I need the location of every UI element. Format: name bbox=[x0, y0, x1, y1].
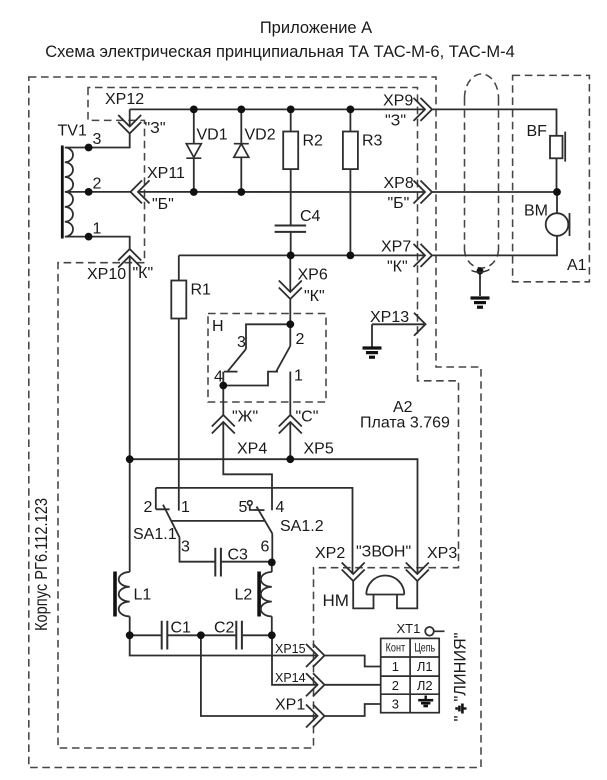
wire R2 C4 branch bbox=[290, 109, 292, 255]
connector XP15 bbox=[306, 644, 325, 667]
svg-text:3: 3 bbox=[237, 334, 246, 351]
svg-text:"Б": "Б" bbox=[388, 195, 410, 212]
svg-text:Плата 3.769: Плата 3.769 bbox=[360, 415, 450, 432]
connector XP2 bbox=[342, 563, 365, 582]
wire XP15 to XT1 row1 bbox=[325, 656, 381, 667]
wire SA1.1 pin2 stub bbox=[156, 488, 170, 509]
wire SA1 middle link rail bbox=[172, 520, 264, 522]
transformer TV1 winding bbox=[65, 148, 89, 237]
earphone BF bbox=[550, 132, 565, 162]
wire net Б rail bbox=[89, 191, 557, 193]
inductor L1 core bbox=[113, 572, 117, 617]
svg-text:BF: BF bbox=[527, 123, 548, 140]
svg-text:2: 2 bbox=[296, 331, 305, 348]
diode VD2 bbox=[234, 144, 249, 158]
svg-text:XP13: XP13 bbox=[370, 309, 409, 326]
inductor L2 winding bbox=[261, 572, 272, 616]
svg-text:XP7: XP7 bbox=[381, 239, 411, 256]
connector XP4 bbox=[212, 415, 235, 434]
svg-text:5: 5 bbox=[239, 499, 248, 516]
resistor R1 bbox=[171, 281, 186, 319]
node R3 bottom bbox=[347, 252, 355, 260]
svg-text:2: 2 bbox=[93, 176, 102, 193]
connector XP9 bbox=[414, 98, 433, 121]
hookswitch unit H dashed box bbox=[208, 314, 326, 403]
wire SA1 top rail to XP2 bbox=[156, 488, 353, 574]
node C4 bottom bbox=[287, 252, 295, 260]
svg-text:L1: L1 bbox=[134, 587, 152, 604]
svg-text:ХТ1: ХТ1 bbox=[397, 621, 421, 636]
wire XP5 to mid rail bbox=[289, 422, 291, 459]
wire XP12 to З rail bbox=[129, 109, 131, 126]
handset cable dashed sheath bbox=[465, 74, 499, 268]
enclosure Корпус РГ6.112.123 dashed outline bbox=[29, 77, 481, 768]
node TV1 pin3 bbox=[85, 144, 93, 152]
svg-text:Цепь: Цепь bbox=[414, 643, 435, 655]
svg-text:SA1.1: SA1.1 bbox=[133, 526, 177, 543]
node H pin4 bbox=[219, 382, 227, 390]
wire H blade 2 bbox=[276, 346, 290, 371]
microphone BM bbox=[546, 213, 570, 236]
resistor R3 bbox=[343, 132, 358, 170]
inductor L1 winding bbox=[119, 572, 130, 616]
svg-text:3: 3 bbox=[93, 131, 102, 148]
node VD1 top bbox=[190, 106, 198, 114]
wire C1 C2 row bbox=[130, 634, 272, 636]
ground XP13 bbox=[363, 348, 382, 357]
node C1 C2 mid bbox=[197, 631, 205, 639]
inductor L2 core bbox=[257, 572, 261, 617]
switch SA1.2 pin5 circle bbox=[248, 501, 253, 506]
diode VD1 bbox=[186, 144, 201, 159]
node C1 left bbox=[126, 631, 134, 639]
wire SA1.2 pin6 drop bbox=[271, 534, 273, 563]
connector XP13 bbox=[414, 313, 426, 336]
wire XP15 feed bbox=[130, 635, 318, 655]
node TV1 pin2 bbox=[85, 188, 93, 196]
wire XP2 bell lead bbox=[353, 581, 373, 608]
terminal block XT1 table bbox=[381, 638, 440, 712]
wire shield drop bbox=[479, 271, 481, 296]
wire XP14 feed bbox=[272, 635, 318, 685]
wire XP3 bell lead bbox=[397, 581, 417, 608]
svg-text:BM: BM bbox=[524, 203, 548, 220]
svg-text:R3: R3 bbox=[362, 133, 383, 150]
node H top bbox=[286, 320, 294, 328]
svg-text:XP14: XP14 bbox=[275, 671, 306, 685]
node C2 right bbox=[268, 631, 276, 639]
wire XP1 to XT1 row3 bbox=[325, 704, 381, 716]
wire R1 top bbox=[178, 255, 180, 280]
wire H pin2 bbox=[289, 324, 291, 346]
svg-text:XP10: XP10 bbox=[87, 266, 126, 283]
svg-text:"ЗВОН": "ЗВОН" bbox=[356, 544, 411, 561]
resistor R2 bbox=[283, 132, 298, 170]
connector XP7 bbox=[414, 244, 433, 267]
svg-text:"К": "К" bbox=[304, 288, 325, 305]
node VD2 top bbox=[237, 106, 245, 114]
svg-text:": " bbox=[451, 715, 470, 721]
svg-text:XP4: XP4 bbox=[237, 441, 267, 458]
wire VD2 branch bbox=[240, 109, 242, 192]
svg-text:"З": "З" bbox=[145, 120, 166, 137]
connector XP1 bbox=[306, 705, 325, 728]
wire XP1 feed bbox=[201, 635, 318, 716]
wire XP10 down left riser bbox=[129, 256, 131, 459]
wire L1 top lead bbox=[129, 459, 131, 572]
wire C3 right bbox=[221, 561, 272, 563]
wire mid rail y459 bbox=[130, 459, 418, 574]
svg-text:XP9: XP9 bbox=[383, 93, 413, 110]
wire TV1 pin1 to XP10 bbox=[89, 237, 130, 249]
wire XP6 upper bbox=[289, 255, 291, 292]
svg-text:1: 1 bbox=[392, 659, 399, 674]
XT1 screw circle bbox=[425, 627, 434, 636]
svg-text:L2: L2 bbox=[235, 587, 253, 604]
svg-text:2: 2 bbox=[392, 678, 399, 693]
capacitor C4 bbox=[275, 226, 307, 232]
wire SA1.2 pin5 stub bbox=[250, 505, 265, 510]
svg-text:А2: А2 bbox=[393, 399, 413, 416]
wire H tick4 bbox=[224, 371, 238, 373]
wire H pin4 to XP4 bbox=[222, 386, 224, 416]
svg-text:3: 3 bbox=[181, 539, 190, 556]
wire net З handset side bbox=[432, 109, 557, 135]
svg-text:Конт: Конт bbox=[386, 643, 406, 655]
svg-text:XP15: XP15 bbox=[275, 642, 306, 656]
wire H pin3 arm bbox=[246, 324, 290, 349]
wire XP14 to XT1 row2 bbox=[325, 684, 381, 686]
svg-text:4: 4 bbox=[276, 499, 285, 516]
wire H pin4 to riser bbox=[223, 372, 278, 386]
connector XP10 bbox=[118, 249, 141, 268]
node left rail bbox=[126, 455, 134, 463]
svg-text:XP2: XP2 bbox=[315, 545, 345, 562]
wire XP4 to SA1.2 pin4 bbox=[223, 422, 272, 510]
wire net К rail bbox=[179, 236, 557, 256]
svg-text:TV1: TV1 bbox=[58, 123, 87, 140]
svg-text:SA1.2: SA1.2 bbox=[280, 518, 324, 535]
svg-text:Корпус РГ6.112.123: Корпус РГ6.112.123 bbox=[31, 498, 51, 631]
cable shield arc bbox=[472, 270, 490, 273]
svg-text:XP1: XP1 bbox=[275, 697, 305, 714]
svg-text:НМ: НМ bbox=[323, 591, 349, 610]
node TV1 pin1 bbox=[85, 233, 93, 241]
svg-text:"К": "К" bbox=[387, 259, 408, 276]
wire R3 branch bbox=[349, 109, 351, 255]
svg-text:XP6: XP6 bbox=[298, 267, 328, 284]
svg-text:"ЛИНИЯ": "ЛИНИЯ" bbox=[451, 633, 470, 702]
svg-text:6: 6 bbox=[261, 539, 270, 556]
capacitor C1 bbox=[162, 621, 168, 650]
wire H pin4 stub bbox=[222, 372, 224, 386]
node XP5 rail bbox=[286, 455, 294, 463]
svg-text:"К": "К" bbox=[133, 265, 154, 282]
svg-text:Приложение А: Приложение А bbox=[260, 19, 372, 37]
wire XP13 to ground bbox=[372, 324, 424, 346]
svg-text:Н: Н bbox=[212, 318, 224, 335]
handset unit A1 dashed box bbox=[513, 75, 590, 281]
svg-text:1: 1 bbox=[181, 499, 190, 516]
svg-text:"Б": "Б" bbox=[152, 196, 174, 213]
svg-text:VD2: VD2 bbox=[245, 127, 276, 144]
svg-text:XP12: XP12 bbox=[105, 91, 144, 108]
table cell ground glyph bbox=[418, 696, 433, 707]
svg-text:3: 3 bbox=[392, 697, 399, 712]
svg-text:R2: R2 bbox=[303, 133, 324, 150]
svg-text:Л1: Л1 bbox=[417, 659, 433, 674]
svg-text:XP8: XP8 bbox=[384, 175, 414, 192]
bell HM dome bbox=[366, 576, 404, 595]
connector XP11 bbox=[131, 180, 150, 203]
wire H pin1 to XP5 bbox=[289, 372, 291, 415]
svg-text:Схема электрическая принципиал: Схема электрическая принципиальная ТА ТА… bbox=[45, 43, 515, 61]
svg-text:Л2: Л2 bbox=[417, 678, 433, 693]
svg-text:"З": "З" bbox=[385, 113, 406, 130]
node cable shield bbox=[477, 268, 484, 275]
node A1 mid bbox=[553, 188, 561, 196]
svg-text:C3: C3 bbox=[228, 547, 249, 564]
svg-text:XP3: XP3 bbox=[427, 545, 457, 562]
svg-text:1: 1 bbox=[294, 368, 303, 385]
connector XP6 bbox=[279, 281, 302, 300]
connector XP12 bbox=[118, 115, 141, 134]
svg-text:C2: C2 bbox=[214, 620, 235, 637]
node C3 L2 pin6 bbox=[268, 559, 276, 567]
XT1 screw line bbox=[434, 630, 445, 632]
wire L2 top lead bbox=[271, 562, 273, 572]
svg-text:"Ж": "Ж" bbox=[232, 409, 258, 426]
node R3 top bbox=[347, 106, 355, 114]
wire L1 bottom lead bbox=[129, 616, 131, 635]
svg-text:VD1: VD1 bbox=[197, 127, 228, 144]
svg-text:XP5: XP5 bbox=[304, 441, 334, 458]
wire TV1 pin3 to XP12 bbox=[89, 134, 130, 148]
svg-text:1: 1 bbox=[93, 221, 102, 238]
svg-text:"С": "С" bbox=[296, 409, 319, 426]
transformer TV1 core bbox=[61, 146, 64, 239]
svg-text:C4: C4 bbox=[300, 208, 321, 225]
board A2 dashed outline bbox=[58, 88, 459, 749]
wire XP6 lower to H bbox=[289, 299, 291, 324]
connector XP8 bbox=[414, 181, 433, 204]
capacitor C3 bbox=[215, 548, 221, 577]
wire BM top lead bbox=[556, 192, 558, 213]
wire SA1.1 blade bbox=[163, 505, 180, 538]
wire net З top rail bbox=[130, 108, 424, 110]
wire R1 bottom to SA1.1 pin1 bbox=[178, 319, 180, 511]
capacitor C2 bbox=[236, 621, 242, 650]
ground under cable bbox=[471, 298, 490, 307]
wire BF top lead bbox=[556, 158, 558, 192]
connector XP14 bbox=[306, 673, 325, 696]
wire SA1.1 pin3 drop bbox=[180, 537, 216, 561]
label ЛИНИЯ ground glyph rotated bbox=[457, 704, 467, 714]
wire SA1.2 blade bbox=[257, 507, 273, 534]
svg-text:C1: C1 bbox=[171, 620, 192, 637]
connector XP3 bbox=[406, 563, 429, 582]
svg-text:XP11: XP11 bbox=[147, 165, 185, 182]
wire VD1 branch bbox=[193, 109, 195, 192]
svg-text:R1: R1 bbox=[191, 282, 212, 299]
node R2 top bbox=[287, 106, 295, 114]
svg-text:2: 2 bbox=[144, 499, 153, 516]
svg-text:А1: А1 bbox=[567, 257, 587, 274]
node VD1 bottom bbox=[190, 188, 198, 196]
wire L2 bottom lead bbox=[271, 616, 273, 635]
connector XP5 bbox=[279, 415, 302, 434]
node VD2 bottom bbox=[237, 188, 245, 196]
wire H blade 3-4 bbox=[228, 349, 246, 371]
